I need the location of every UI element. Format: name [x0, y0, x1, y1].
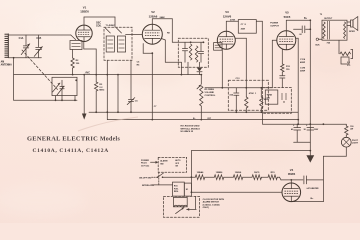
potentiometer R9 volume control — [197, 74, 203, 121]
svg-text:C17B: C17B — [300, 67, 306, 69]
svg-text:NO WAFS 25: NO WAFS 25 — [181, 130, 194, 133]
svg-text:COIL: COIL — [96, 25, 102, 27]
svg-text:AM: AM — [1, 61, 5, 64]
label C1B — [36, 37, 41, 40]
dial cord link — [22, 50, 58, 90]
svg-text:C17A: C17A — [300, 58, 306, 61]
label B out — [311, 198, 315, 200]
tube V1 — [76, 25, 92, 41]
variable capacitor C1B — [34, 35, 42, 58]
output transformer T3 — [322, 20, 347, 40]
wire V2 screen riser — [172, 19, 204, 43]
wire V4 cathode — [293, 201, 323, 203]
wire T2 down a — [181, 62, 183, 75]
wire T1 sec down — [106, 60, 108, 113]
label voice coil — [347, 62, 351, 67]
title line 2 — [33, 148, 109, 154]
resistor R13 — [280, 50, 285, 88]
wire V3 grid — [226, 21, 238, 31]
svg-text:470K: 470K — [249, 92, 254, 95]
svg-text:POWER: POWER — [141, 160, 149, 162]
capacitor C16 — [294, 26, 312, 33]
wire AVC drop — [117, 74, 119, 113]
svg-text:50C5: 50C5 — [254, 172, 260, 174]
wire grid top — [8, 35, 75, 40]
wire ground line — [191, 150, 310, 152]
label C5 — [135, 100, 139, 102]
label R11 — [255, 93, 269, 101]
wire T2 down b — [187, 62, 189, 74]
svg-text:PLUG: PLUG — [141, 163, 147, 165]
label on-off switch — [139, 178, 152, 180]
svg-text:ON-OFF SW.: ON-OFF SW. — [139, 178, 152, 180]
label R10 — [249, 92, 254, 95]
capacitor C8 — [234, 88, 239, 113]
wire loop bottom — [191, 191, 283, 193]
wire B plus riser — [309, 20, 311, 151]
wire AVC bus — [14, 74, 202, 76]
resistor voice coil — [339, 40, 353, 58]
chassis arrow — [82, 74, 87, 120]
svg-text:(C1411A, C1412A: (C1411A, C1412A — [203, 203, 220, 206]
wire V2 cathode — [143, 44, 153, 121]
wire left riser — [13, 57, 15, 100]
svg-text:2W: 2W — [350, 129, 353, 131]
wire T1 to V2 — [126, 34, 143, 36]
label AVC — [85, 71, 90, 74]
svg-text:CLOCK MOTOR WITH: CLOCK MOTOR WITH — [203, 199, 225, 201]
svg-text:12AV6: 12AV6 — [223, 14, 232, 18]
svg-text:#47 HEATER: #47 HEATER — [307, 187, 320, 190]
heater string — [163, 175, 278, 180]
note text — [181, 126, 201, 134]
svg-text:35W4: 35W4 — [288, 172, 296, 176]
svg-text:LIGHT: LIGHT — [352, 143, 359, 145]
svg-text:ALARM: ALARM — [160, 160, 168, 163]
svg-text:C1B: C1B — [36, 37, 41, 40]
clock motor — [163, 196, 199, 217]
svg-text:20M: 20M — [241, 29, 245, 31]
svg-text:GENERAL ELECTRIC Models: GENERAL ELECTRIC Models — [27, 136, 120, 143]
svg-text:TONE: TONE — [267, 95, 273, 97]
svg-text:AVC: AVC — [85, 71, 90, 74]
label V3 12AV6 — [223, 10, 232, 18]
terminal — [316, 38, 322, 40]
ground — [306, 151, 314, 163]
wire V1 plate — [84, 17, 115, 27]
label C17 — [300, 58, 306, 72]
svg-text:SPKR: SPKR — [349, 31, 355, 33]
svg-text:C7 .5: C7 .5 — [241, 24, 247, 26]
scan crease — [78, 117, 138, 131]
label R6 — [160, 16, 171, 35]
loop antenna L1 — [5, 34, 9, 58]
svg-text:AUTO: AUTO — [175, 159, 181, 162]
svg-text:CONTROL: CONTROL — [205, 95, 216, 97]
diode plates box — [214, 43, 222, 51]
wire bus B minus — [89, 111, 298, 113]
wire heater to V4 — [277, 177, 303, 183]
wire V3 diode down — [221, 49, 223, 88]
svg-text:ALARM SWITCH: ALARM SWITCH — [203, 201, 220, 204]
svg-text:240K: 240K — [160, 16, 166, 19]
label interlock — [142, 185, 155, 187]
svg-text:270K: 270K — [230, 19, 236, 21]
svg-text:40MF: 40MF — [300, 61, 306, 64]
svg-text:12BA6: 12BA6 — [149, 14, 158, 18]
wire V5 plate — [286, 19, 311, 30]
wire V1 cathode — [84, 42, 96, 50]
label 750 — [327, 42, 331, 44]
wire trimmer stubs — [55, 96, 76, 102]
alarm switch box — [158, 157, 186, 172]
svg-text:ANTENNA: ANTENNA — [1, 63, 13, 66]
wire pilot return — [323, 156, 346, 201]
resistor R3 — [95, 49, 98, 113]
terminal box — [184, 183, 191, 196]
capacitor C5 — [127, 60, 135, 113]
label C1A — [19, 37, 24, 40]
heater labels — [197, 171, 276, 174]
label C8 — [229, 94, 234, 96]
label AM ANTENNA — [1, 61, 13, 67]
svg-text:WITH ALL MODELS: WITH ALL MODELS — [181, 127, 201, 130]
svg-text:12BE6: 12BE6 — [216, 172, 223, 174]
title line 1 — [27, 136, 120, 143]
label volume control — [205, 89, 216, 97]
tube V2 — [142, 24, 162, 44]
tube V5 — [277, 31, 296, 50]
svg-text:OUTPUT: OUTPUT — [324, 18, 333, 20]
svg-text:150V: 150V — [314, 129, 319, 131]
svg-text:ONLY): ONLY) — [203, 207, 210, 209]
svg-text:PILOT: PILOT — [352, 140, 359, 142]
label SPKR — [349, 31, 355, 33]
svg-text:50C5: 50C5 — [284, 15, 291, 19]
svg-text:OUTPUT: OUTPUT — [270, 25, 279, 27]
pilot lamp — [341, 137, 351, 156]
wire plate riser — [296, 38, 299, 125]
label C16 — [299, 34, 303, 36]
tube V4 — [282, 183, 301, 202]
capacitor C17A — [291, 124, 301, 142]
voice coil box — [341, 57, 349, 64]
wire bottom bus left — [14, 99, 77, 101]
tone switch box — [263, 88, 292, 114]
wire loop left — [190, 151, 192, 193]
diode detector — [197, 62, 202, 74]
svg-text:POWER: POWER — [270, 23, 278, 25]
label C6 R5 — [137, 61, 158, 108]
svg-text:117V AC: 117V AC — [141, 164, 150, 167]
label V2 12BA6 — [149, 10, 158, 18]
resistor R11 — [260, 88, 263, 113]
svg-text:T1 455KC: T1 455KC — [106, 24, 116, 27]
clock motor text — [203, 199, 225, 209]
svg-text:SW.: SW. — [160, 163, 164, 165]
svg-text:12BA6: 12BA6 — [197, 171, 205, 174]
label power output — [270, 23, 279, 28]
wire bus AVC return — [107, 112, 298, 119]
wire interlock — [152, 172, 173, 185]
tube V3 — [217, 31, 235, 49]
wire V4 out — [306, 179, 323, 181]
svg-text:OSC: OSC — [96, 23, 101, 25]
wire V2 out — [162, 39, 182, 63]
wire audio bus — [205, 87, 272, 89]
label osc coil — [96, 23, 102, 28]
capacitor C19 — [304, 176, 307, 184]
svg-text:V.C.: V.C. — [347, 65, 351, 67]
label V5 50C5 — [284, 11, 291, 19]
wire antenna bottom — [8, 57, 41, 59]
label T1 — [106, 24, 116, 27]
wire filter bottom — [294, 141, 311, 143]
capacitor C17B — [304, 124, 319, 131]
switch S1 — [152, 173, 164, 178]
label V1 12BE6 — [80, 5, 89, 13]
svg-text:30MF: 30MF — [300, 70, 306, 72]
wire C14 drop — [256, 21, 262, 87]
svg-text:R17,R18,R19 USED: R17,R18,R19 USED — [181, 126, 200, 128]
label R3 — [99, 84, 104, 92]
wire V2 plate — [152, 19, 172, 24]
resistor R17 — [345, 124, 348, 137]
component box C14 — [238, 20, 256, 34]
label C13 — [236, 78, 241, 80]
svg-text:C1410A, C1411A, C1412A: C1410A, C1411A, C1412A — [33, 148, 109, 154]
svg-text:MEG: MEG — [99, 90, 104, 92]
label C19 — [307, 187, 320, 190]
svg-text:C1A: C1A — [19, 37, 24, 40]
svg-text:12AV6: 12AV6 — [235, 171, 242, 174]
svg-text:BLK: BLK — [316, 44, 321, 46]
wire V3 plate — [235, 38, 246, 97]
svg-text:R9 1MEG: R9 1MEG — [205, 89, 215, 91]
label R13 — [286, 66, 291, 71]
IF transformer T1 — [104, 27, 132, 60]
label R17 — [350, 126, 354, 131]
svg-text:RES.: RES. — [174, 191, 179, 193]
oscillator trimmer box — [52, 77, 77, 95]
label power plug — [141, 160, 150, 168]
fuse resistor box R16 — [173, 182, 185, 196]
svg-text:VOLUME: VOLUME — [205, 92, 215, 94]
resistor R10 — [245, 97, 248, 113]
wire V5 grid — [272, 40, 277, 88]
speaker SP1 — [347, 17, 358, 31]
label T3 — [320, 14, 333, 20]
variable capacitor C1A — [21, 35, 30, 58]
label B plus — [304, 18, 308, 20]
label R2 — [76, 60, 80, 65]
IF transformer T2 — [178, 38, 208, 67]
label V4 35W4 — [288, 168, 296, 176]
oscillator coil box L2 — [70, 41, 82, 50]
plug arrow — [151, 161, 159, 164]
svg-text:12BE6: 12BE6 — [80, 10, 89, 14]
wire bus b plus — [263, 113, 347, 125]
bus labels — [193, 118, 212, 120]
svg-text:SW: SW — [267, 98, 270, 100]
resistor R2 — [71, 49, 74, 74]
label pilot light — [352, 140, 359, 145]
svg-text:FUS.: FUS. — [174, 188, 179, 190]
label BLK — [316, 44, 321, 46]
AV dashed box — [228, 80, 268, 110]
label R7 — [230, 19, 236, 21]
